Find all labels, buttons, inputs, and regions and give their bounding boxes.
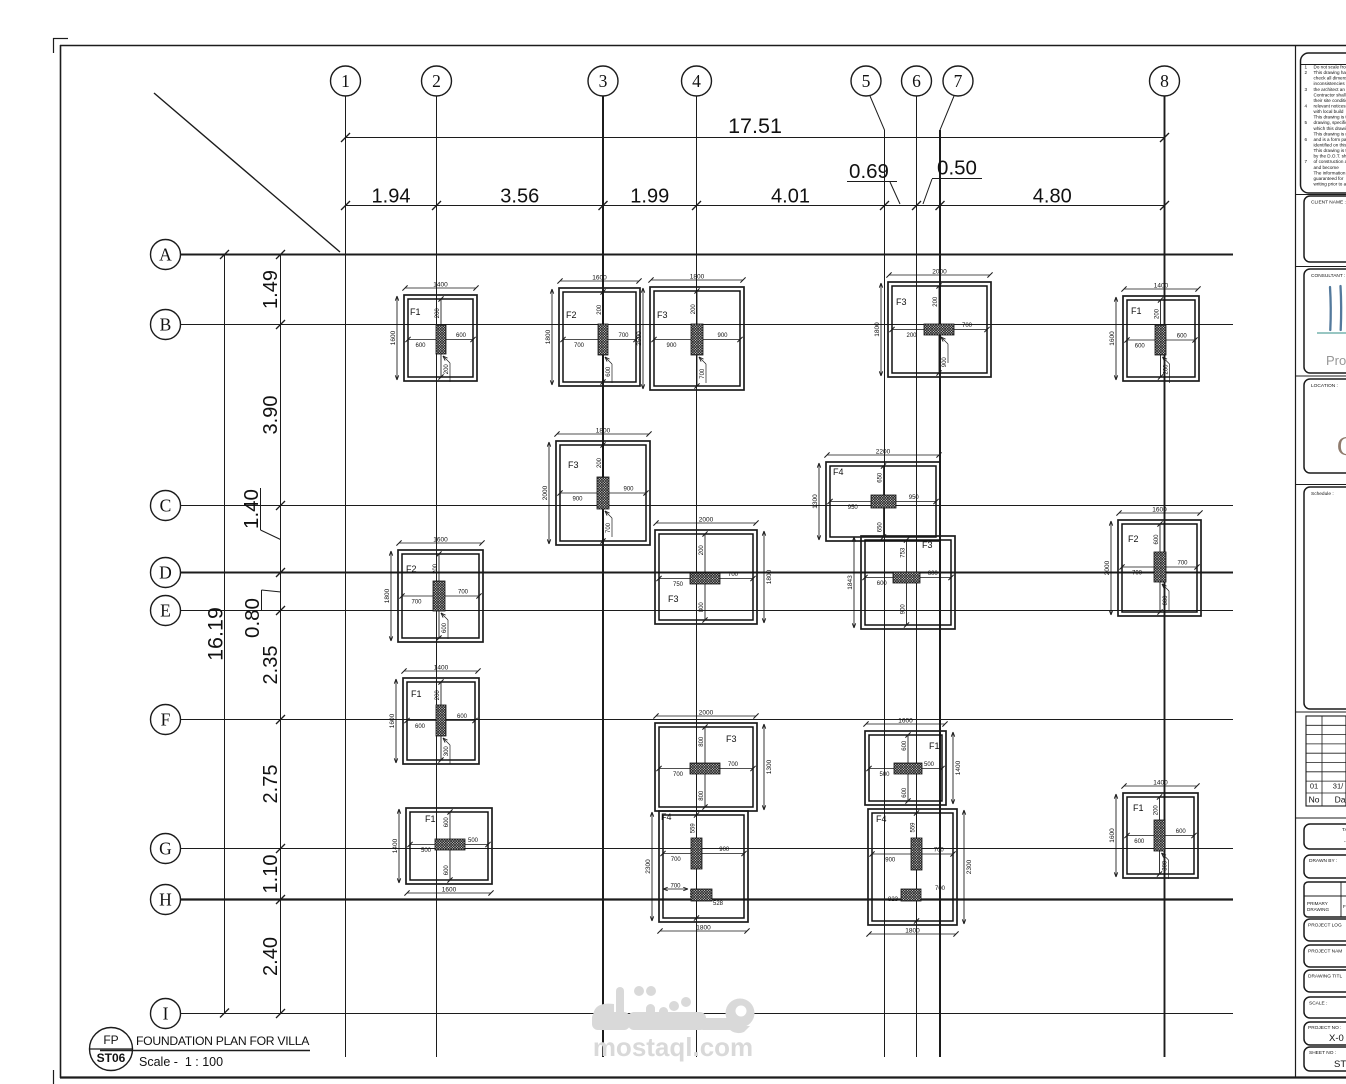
svg-text:700: 700 (728, 572, 739, 578)
svg-text:E: E (160, 601, 171, 621)
svg-text:200: 200 (1164, 364, 1170, 375)
corner trim mark top-left (53, 38, 68, 53)
svg-text:600: 600 (442, 622, 448, 633)
svg-text:Schedule :: Schedule : (1311, 491, 1334, 497)
svg-text:200: 200 (1154, 805, 1160, 816)
svg-text:1843: 1843 (847, 575, 854, 590)
title block project-no box (1304, 1022, 1346, 1045)
svg-text:which this drawi: which this drawi (1314, 126, 1346, 131)
svg-text:700: 700 (606, 522, 612, 533)
svg-text:1400: 1400 (1153, 780, 1168, 787)
grid bubble 2 (422, 66, 452, 96)
svg-text:700: 700 (1132, 571, 1143, 577)
svg-text:CLIENT NAME :: CLIENT NAME : (1311, 200, 1346, 206)
svg-text:This drawing is n: This drawing is n (1314, 131, 1346, 136)
svg-text:F2: F2 (566, 310, 577, 320)
svg-text:1600: 1600 (433, 537, 448, 544)
footing F3 @DE5-7 (847, 536, 955, 629)
svg-text:753: 753 (901, 547, 907, 558)
svg-text:200: 200 (597, 304, 603, 315)
svg-text:200: 200 (906, 333, 917, 339)
svg-text:700: 700 (671, 857, 682, 863)
svg-text:200: 200 (435, 690, 441, 701)
title block project-name box (1304, 945, 1346, 967)
svg-text:900: 900 (942, 357, 948, 368)
dimension 2.40 (260, 937, 282, 976)
footing F1 @F2 (389, 665, 481, 765)
grid line 3 (602, 96, 604, 1057)
svg-text:1600: 1600 (1109, 331, 1116, 346)
svg-text:01: 01 (1310, 782, 1318, 791)
grid bubble 3 (588, 66, 618, 96)
svg-text:17.51: 17.51 (728, 114, 782, 138)
svg-text:F2: F2 (406, 564, 417, 574)
svg-text:1600: 1600 (898, 718, 913, 725)
svg-text:600: 600 (415, 343, 426, 349)
svg-text:2000: 2000 (1104, 560, 1111, 575)
svg-text:700: 700 (411, 600, 422, 606)
svg-text:and is a form part: and is a form part (1314, 137, 1346, 142)
svg-text:1300: 1300 (766, 759, 773, 774)
grid line C (180, 505, 1233, 507)
overall dimension 17.51 (341, 114, 1169, 142)
svg-text:1400: 1400 (392, 838, 399, 853)
dimension chain line left (276, 250, 285, 1018)
title block left border (1295, 45, 1297, 1078)
svg-text:200: 200 (433, 563, 439, 574)
svg-text:This drawing has b: This drawing has b (1314, 70, 1346, 75)
svg-text:2: 2 (432, 71, 441, 91)
svg-text:600: 600 (902, 740, 908, 751)
svg-text:1.99: 1.99 (630, 186, 669, 208)
svg-text:2000: 2000 (932, 269, 947, 276)
footing F3 @C3 (542, 428, 652, 546)
title block sheet-no box (1304, 1047, 1346, 1071)
grid bubble 7 (943, 66, 973, 96)
footing F4 @GH4 (645, 811, 750, 934)
title block schedule box (1304, 487, 1346, 709)
svg-text:F1: F1 (1131, 306, 1142, 316)
svg-text:F3: F3 (657, 310, 668, 320)
svg-text:900: 900 (717, 333, 728, 339)
title block drawing-title box (1304, 970, 1346, 992)
svg-text:H: H (159, 890, 172, 910)
grid line 6 (916, 96, 918, 1057)
grid line D (180, 572, 1233, 574)
svg-text:1400: 1400 (1154, 283, 1169, 290)
svg-text:900: 900 (623, 487, 634, 493)
svg-text:3: 3 (599, 71, 608, 91)
svg-text:31/: 31/ (1333, 782, 1344, 791)
grid bubble B (151, 310, 181, 340)
title block revision table (1306, 716, 1346, 806)
dimension chain line top (341, 201, 1169, 210)
svg-text:1800: 1800 (596, 428, 611, 435)
watermark mostaql.com (593, 1032, 753, 1062)
svg-text:300: 300 (1163, 860, 1169, 871)
svg-text:1: 1 (1305, 65, 1308, 70)
svg-text:6: 6 (912, 71, 921, 91)
svg-text:Contractor shall v: Contractor shall v (1314, 92, 1346, 97)
footing F1 @B2 (390, 282, 479, 383)
watermark mostaql logo (592, 986, 755, 1033)
svg-text:600: 600 (606, 366, 612, 377)
grid line 1 (345, 96, 347, 1057)
svg-text:700: 700 (673, 772, 684, 778)
svg-text:Proj: Proj (1326, 353, 1346, 368)
svg-text:1600: 1600 (1109, 828, 1116, 843)
svg-text:1800: 1800 (874, 322, 881, 337)
svg-text:6: 6 (1305, 137, 1308, 142)
svg-text:650: 650 (878, 472, 884, 483)
svg-text:1.40: 1.40 (240, 489, 263, 529)
svg-text:16.19: 16.19 (204, 607, 228, 661)
grid bubble 5 (851, 66, 881, 96)
grid line F (180, 719, 1233, 721)
title block project-logo box (1304, 919, 1346, 941)
grid bubble 4 (682, 66, 712, 96)
svg-text:900: 900 (885, 858, 896, 864)
column hatch @H4 (663, 884, 724, 908)
svg-text:check all dimensio: check all dimensio (1314, 76, 1346, 81)
svg-text:SHEET NO :: SHEET NO : (1309, 1050, 1336, 1056)
svg-text:500: 500 (421, 848, 432, 854)
grid bubble C (151, 491, 181, 521)
grid line 8 (1164, 96, 1166, 1057)
svg-text:SCALE :: SCALE : (1309, 1001, 1327, 1007)
svg-text:The information s: The information s (1314, 170, 1346, 175)
svg-text:F4: F4 (876, 814, 887, 824)
svg-text:F4: F4 (833, 467, 844, 477)
svg-text:600: 600 (1177, 334, 1188, 340)
svg-text:3: 3 (1305, 87, 1308, 92)
grid bubble D (151, 558, 181, 588)
svg-text:Da: Da (1335, 795, 1346, 805)
svg-text:F1: F1 (425, 814, 436, 824)
grid bubble H (151, 885, 181, 915)
svg-text:2.35: 2.35 (260, 646, 282, 685)
svg-text:1800: 1800 (545, 329, 552, 344)
svg-text:800: 800 (699, 602, 705, 613)
title block drawn-by box (1304, 855, 1346, 878)
svg-text:900: 900 (572, 497, 583, 503)
svg-text:F: F (161, 710, 171, 730)
dimension 1.94 (372, 186, 411, 208)
diagonal reference line (154, 93, 340, 252)
dimension 4.80 (1033, 186, 1072, 208)
svg-text:200: 200 (435, 308, 441, 319)
svg-text:600: 600 (1135, 344, 1146, 350)
svg-text:1400: 1400 (955, 760, 962, 775)
svg-text:600: 600 (1163, 595, 1169, 606)
grid line 2 (436, 96, 438, 1057)
footing F3 @FG4 (653, 710, 773, 812)
svg-text:7: 7 (954, 71, 963, 91)
svg-text:X-0: X-0 (1329, 1033, 1344, 1044)
svg-text:600: 600 (1176, 829, 1187, 835)
svg-text:F3: F3 (726, 734, 737, 744)
grid line 7 (940, 96, 954, 1057)
grid line 4 (696, 96, 698, 1057)
svg-text:528: 528 (713, 901, 724, 907)
dimension 1.49 (260, 270, 282, 309)
svg-text:1.10: 1.10 (260, 855, 282, 894)
footing F4 @C5-6 (812, 449, 942, 542)
svg-text:4: 4 (692, 71, 701, 91)
svg-text:600: 600 (902, 787, 908, 798)
svg-text:700: 700 (700, 368, 706, 379)
svg-text:F3: F3 (896, 297, 907, 307)
svg-text:1300: 1300 (812, 494, 819, 509)
svg-text:500: 500 (468, 838, 479, 844)
svg-text:TA: TA (1342, 827, 1346, 833)
title block client box (1304, 196, 1346, 262)
footing F4 @GH5-7 (866, 809, 973, 937)
svg-text:950: 950 (909, 495, 920, 501)
svg-text:500: 500 (879, 772, 890, 778)
svg-text:ST_: ST_ (1334, 1059, 1346, 1070)
svg-text:700: 700 (618, 333, 629, 339)
svg-text:0.69: 0.69 (849, 160, 889, 183)
svg-text:PROJECT NO :: PROJECT NO : (1308, 1025, 1342, 1031)
svg-text:900: 900 (901, 604, 907, 615)
svg-text:DRAWING: DRAWING (1307, 907, 1329, 912)
svg-text:C: C (160, 496, 172, 516)
svg-text:1600: 1600 (1152, 507, 1167, 514)
svg-text:559: 559 (911, 822, 917, 833)
svg-text:4.01: 4.01 (771, 186, 810, 208)
svg-text:their site conditio: their site conditio (1314, 98, 1346, 103)
svg-text:1600: 1600 (390, 330, 397, 345)
dimension 3.56 (500, 186, 539, 208)
svg-text:823: 823 (888, 897, 899, 903)
dimension 4.01 (771, 186, 810, 208)
svg-text:200: 200 (691, 304, 697, 315)
dimension 2.75 (260, 765, 282, 804)
svg-text:5: 5 (862, 71, 871, 91)
grid bubble 1 (331, 66, 361, 96)
grid line B (180, 324, 1233, 326)
svg-text:PROJECT NAM: PROJECT NAM (1308, 949, 1342, 955)
dimension 1.40 (240, 488, 281, 540)
svg-text:300: 300 (444, 746, 450, 757)
dimension 0.69 (847, 160, 900, 204)
svg-text:5: 5 (1305, 120, 1308, 125)
grid bubble A (151, 240, 181, 270)
corner trim mark bottom-left (53, 1070, 55, 1084)
svg-text:800: 800 (699, 790, 705, 801)
svg-text:2000: 2000 (699, 517, 714, 524)
svg-text:650: 650 (878, 522, 884, 533)
svg-text:DRAWING TITL: DRAWING TITL (1308, 974, 1342, 980)
svg-text:F3: F3 (922, 540, 933, 550)
svg-text:F2: F2 (1128, 534, 1139, 544)
footing F1 @B8 (1109, 283, 1201, 384)
svg-text:559: 559 (691, 823, 697, 834)
svg-text:600: 600 (444, 817, 450, 828)
svg-text:of construction a: of construction a (1314, 159, 1346, 164)
svg-text:No: No (1309, 795, 1320, 805)
drawing title text (100, 1034, 310, 1069)
svg-text:700: 700 (670, 884, 681, 890)
svg-text:1400: 1400 (434, 665, 449, 672)
svg-text:2000: 2000 (542, 485, 549, 500)
footing F1 @FG8 (1109, 780, 1200, 880)
svg-text:600: 600 (444, 865, 450, 876)
svg-text:mostaql.com: mostaql.com (593, 1032, 753, 1062)
svg-text:C: C (1337, 431, 1346, 461)
svg-text:700: 700 (574, 343, 585, 349)
title block consultant box (1304, 269, 1346, 373)
title block location box (1304, 379, 1346, 473)
title block section dividers (1296, 195, 1346, 819)
footing F3 @B4 (636, 274, 746, 391)
svg-text:1800: 1800 (690, 274, 705, 281)
svg-text:1800: 1800 (905, 928, 920, 935)
svg-text:PROJECT LOG: PROJECT LOG (1308, 923, 1342, 929)
svg-text:600: 600 (1134, 839, 1145, 845)
overall dimension 16.19 (204, 250, 230, 1018)
svg-text:1600: 1600 (442, 887, 457, 894)
grid line E (180, 610, 1233, 612)
grid bubble 6 (902, 66, 932, 96)
svg-text:600: 600 (415, 724, 426, 730)
svg-text:I: I (163, 1004, 169, 1024)
svg-text:1600: 1600 (389, 713, 396, 728)
svg-text:8: 8 (1160, 71, 1169, 91)
svg-text:LOCATION :: LOCATION : (1311, 383, 1338, 389)
svg-text:750: 750 (673, 582, 684, 588)
title block drawing-type table (1304, 882, 1346, 917)
drawing title bubble FP/ST06 (90, 1028, 133, 1071)
footing F1 @FG5-7 (863, 718, 962, 806)
svg-text:Do not scale from t: Do not scale from t (1314, 65, 1346, 70)
svg-text:200: 200 (597, 457, 603, 468)
svg-text:0.50: 0.50 (937, 157, 977, 180)
svg-text:FOUNDATION PLAN FOR VILLA: FOUNDATION PLAN FOR VILLA (136, 1034, 310, 1048)
column hatch @H5-7 (888, 886, 946, 903)
svg-text:the architect an: the architect an (1314, 87, 1346, 92)
svg-text:ST06: ST06 (97, 1051, 126, 1065)
svg-text:800: 800 (699, 736, 705, 747)
title block scale box (1304, 997, 1346, 1018)
footing F1 @G2 (392, 808, 494, 896)
svg-text:F3: F3 (568, 460, 579, 470)
svg-text:identified on this: identified on this (1314, 142, 1346, 147)
footing F2 @D2 (384, 537, 485, 643)
svg-text:writing prior to an: writing prior to an (1314, 181, 1346, 186)
svg-text:PRIMARY: PRIMARY (1307, 901, 1328, 906)
svg-text:200: 200 (1155, 308, 1161, 319)
svg-text:600: 600 (457, 714, 468, 720)
svg-text:4.80: 4.80 (1033, 186, 1072, 208)
svg-text:relevant notices a: relevant notices a (1314, 103, 1346, 108)
svg-text:2200: 2200 (876, 449, 891, 456)
svg-text:700: 700 (935, 886, 946, 892)
svg-text:900: 900 (666, 343, 677, 349)
title block notes box (1301, 53, 1346, 193)
svg-text:600: 600 (456, 333, 467, 339)
svg-text:700: 700 (934, 848, 945, 854)
grid line G (180, 848, 1233, 850)
footing F3 @B5-7 (874, 269, 993, 378)
svg-text:A: A (159, 245, 172, 265)
svg-text:with local build: with local build (1314, 109, 1344, 114)
svg-text:900: 900 (719, 847, 730, 853)
svg-text:1600: 1600 (592, 275, 607, 282)
svg-text:by the D.O.T. sh: by the D.O.T. sh (1314, 154, 1346, 159)
svg-text:F3: F3 (668, 594, 679, 604)
grid bubble I (151, 999, 181, 1029)
footing F3 @D4 (653, 517, 773, 625)
dimension 3.90 (260, 396, 282, 435)
grid line I (180, 1013, 1233, 1015)
svg-text:3.56: 3.56 (500, 186, 539, 208)
svg-text:2300: 2300 (966, 859, 973, 874)
svg-text:B: B (160, 315, 172, 335)
svg-text:D: D (159, 563, 172, 583)
footing F2 @D8 (1104, 507, 1203, 617)
dimension 0.80 (241, 590, 281, 638)
svg-text:2300: 2300 (645, 859, 652, 874)
svg-text:G: G (159, 839, 172, 859)
svg-text:1800: 1800 (384, 588, 391, 603)
svg-text:3.90: 3.90 (260, 396, 282, 435)
svg-text:1800: 1800 (696, 925, 711, 932)
svg-text:1.94: 1.94 (372, 186, 411, 208)
svg-text:2: 2 (1305, 70, 1308, 75)
grid bubble G (151, 834, 181, 864)
svg-text:600: 600 (877, 581, 888, 587)
grid line H (180, 898, 1233, 900)
svg-text:500: 500 (924, 762, 935, 768)
svg-text:F1: F1 (410, 307, 421, 317)
svg-text:This drawing is to: This drawing is to (1314, 115, 1346, 120)
dimension 2.35 (260, 646, 282, 685)
svg-text:2.40: 2.40 (260, 937, 282, 976)
dimension 0.50 (923, 157, 982, 205)
svg-text:700: 700 (458, 590, 469, 596)
dimension 1.99 (630, 186, 669, 208)
footing F2 @B3 (545, 275, 642, 387)
grid line A (180, 254, 1233, 256)
svg-text:950: 950 (848, 505, 859, 511)
svg-text:F1: F1 (1133, 803, 1144, 813)
dimension 1.10 (260, 855, 282, 894)
svg-text:2500: 2500 (636, 331, 643, 346)
svg-text:2.75: 2.75 (260, 765, 282, 804)
svg-text:600: 600 (1154, 534, 1160, 545)
grid line 5 (870, 96, 885, 1057)
svg-text:inconsistencies to: inconsistencies to (1314, 81, 1346, 86)
svg-text:1400: 1400 (433, 282, 448, 289)
grid bubble 8 (1150, 66, 1180, 96)
svg-text:700: 700 (962, 323, 973, 329)
svg-text:200: 200 (444, 364, 450, 375)
grid bubble F (151, 705, 181, 735)
svg-text:and become: and become (1314, 165, 1340, 170)
svg-text:700: 700 (728, 762, 739, 768)
svg-text:0.80: 0.80 (241, 598, 264, 638)
svg-text:FP: FP (103, 1033, 118, 1047)
title block approval box (1304, 824, 1346, 849)
svg-text:600: 600 (928, 571, 939, 577)
svg-text:1: 1 (341, 71, 350, 91)
svg-text:1.49: 1.49 (260, 270, 282, 309)
svg-text:CONSULTANT :: CONSULTANT : (1311, 273, 1345, 279)
grid bubble E (151, 596, 181, 626)
svg-text:200: 200 (933, 296, 939, 307)
